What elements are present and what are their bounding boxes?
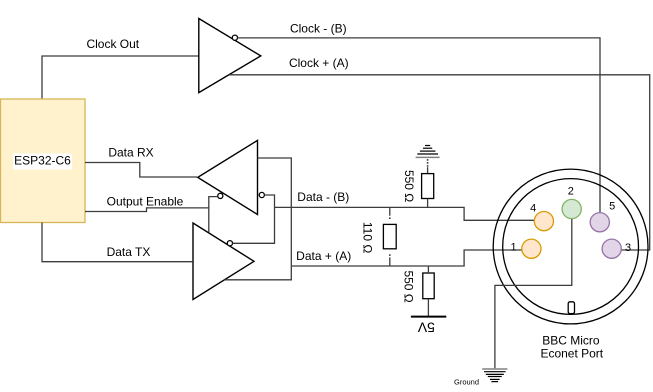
driver U4 — [193, 223, 254, 300]
power rail 5V — [411, 316, 446, 318]
enable bubble U4 — [227, 241, 232, 246]
label 110 ohm R2 — [361, 222, 375, 253]
svg-text:4: 4 — [530, 202, 536, 214]
wire R3 stubs — [427, 266, 429, 316]
svg-text:2: 2 — [568, 185, 574, 197]
wire enable net bubbles U3-U4 — [233, 195, 275, 243]
svg-text:550 Ω: 550 Ω — [402, 170, 416, 202]
wire Data + (A) — [291, 250, 521, 266]
enable bubble U3 — [218, 193, 223, 198]
DIN connector J1 outer circle — [493, 169, 648, 324]
pin 3 — [602, 239, 621, 258]
line driver U1 (clock buffer) — [199, 19, 261, 93]
ESP32-C6 module U2 — [1, 99, 86, 223]
pin 2 — [562, 199, 581, 218]
svg-text:Output Enable: Output Enable — [107, 195, 184, 209]
svg-text:Ground: Ground — [454, 378, 479, 387]
svg-text:BBC Micro: BBC Micro — [542, 334, 600, 348]
svg-text:Econet Port: Econet Port — [540, 347, 603, 361]
label 5V — [417, 320, 435, 336]
DIN connector J1 inner circle — [503, 179, 639, 315]
wire Clock - (B) — [238, 38, 600, 213]
pin 5 — [590, 213, 609, 232]
resistor R3 550 ohm — [423, 273, 434, 299]
inverting output bubble U1 — [232, 35, 237, 40]
ground (top, inverted) — [416, 146, 440, 158]
svg-text:1: 1 — [511, 242, 517, 254]
svg-text:Clock + (A): Clock + (A) — [289, 56, 349, 70]
wire pin 2 to ground — [495, 219, 572, 369]
wire R1 to Data - — [427, 199, 429, 208]
wire Clock + (A) — [230, 75, 650, 250]
pin 1 — [522, 239, 541, 258]
svg-text:Data RX: Data RX — [108, 145, 153, 159]
svg-text:550 Ω: 550 Ω — [402, 270, 416, 302]
input bubble U3 — [259, 192, 264, 197]
wire receiver input to Data + tap — [225, 158, 292, 280]
receiver U3 — [198, 140, 258, 214]
svg-text:110 Ω: 110 Ω — [361, 222, 375, 253]
wire R2 stubs — [389, 207, 391, 266]
svg-text:Clock - (B): Clock - (B) — [290, 22, 347, 36]
label 550 ohm R3 — [402, 270, 416, 302]
label 550 ohm R1 — [402, 170, 416, 202]
wire Clock Out — [42, 56, 198, 99]
resistor R1 550 ohm — [422, 174, 434, 199]
wire Data RX — [85, 163, 197, 178]
svg-text:Data TX: Data TX — [107, 245, 151, 259]
svg-text:Data + (A): Data + (A) — [296, 249, 351, 263]
svg-text:Clock Out: Clock Out — [86, 37, 139, 51]
wire Data TX — [42, 223, 193, 262]
svg-text:Data - (B): Data - (B) — [297, 190, 349, 204]
svg-text:5: 5 — [609, 201, 615, 213]
ground (bottom) — [482, 369, 507, 382]
resistor R2 110 ohm — [383, 224, 396, 248]
connector keyway notch — [568, 302, 574, 314]
svg-text:3: 3 — [625, 242, 631, 254]
svg-text:ESP32-C6: ESP32-C6 — [14, 154, 71, 168]
wire Data - (B) — [275, 207, 535, 220]
wire Output Enable — [85, 197, 218, 233]
pin 4 — [534, 212, 553, 231]
svg-text:5V: 5V — [417, 320, 435, 336]
wire ground to R1 (dotted end) — [427, 159, 429, 167]
